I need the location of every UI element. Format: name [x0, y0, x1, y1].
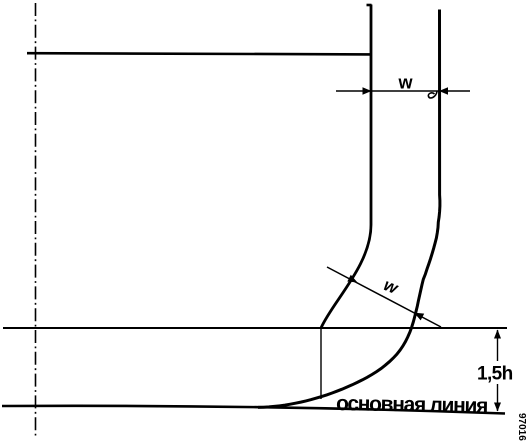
diagonal arrow at right curve (points up-left) [414, 313, 424, 321]
W dimension line between stems [371, 90, 440, 92]
W arrow pointing right at left stem [363, 87, 372, 95]
right stroke edge (stem + hook curve) [258, 10, 440, 408]
svg-text:w: w [398, 73, 414, 93]
svg-text:97016: 97016 [516, 413, 527, 441]
1,5h dimension line lower segment [497, 384, 499, 411]
W dimension leader right [440, 90, 470, 92]
base line (thin horizontal through figure) [3, 327, 507, 329]
svg-text:w: w [381, 275, 402, 298]
1,5h arrow down [494, 403, 501, 412]
thin vertical edge below base line [320, 328, 322, 399]
1,5h arrow up [494, 330, 501, 339]
left stem top serif [367, 4, 372, 7]
small curl mark at right arrow [428, 92, 437, 99]
centerline (dash-dot vertical axis) [35, 3, 37, 437]
top horizontal line (cap height line) [27, 53, 372, 54]
svg-text:1,5h: 1,5h [477, 364, 513, 385]
diagonal w dimension line [327, 267, 441, 327]
bottom descender line [2, 406, 505, 414]
svg-text:основная линия: основная линия [336, 392, 487, 418]
diagonal arrow at left curve (points down-right) [347, 275, 357, 283]
1,5h dimension line upper segment [497, 330, 499, 361]
left stroke edge (stem + curve) [321, 5, 371, 329]
W arrow pointing left at right stem [439, 87, 448, 95]
W dimension leader left [336, 90, 371, 92]
